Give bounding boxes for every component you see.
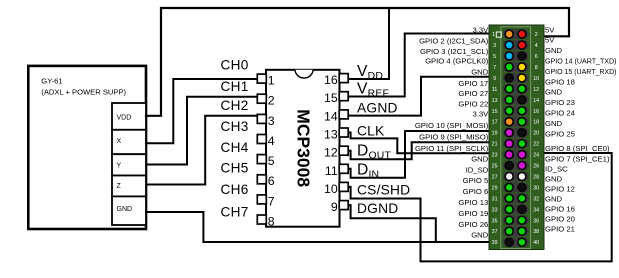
wire Z → CH2 (pin 3) [146, 116, 257, 185]
svg-text:1: 1 [492, 32, 495, 38]
pin 15 (MCP3008 right) [339, 92, 348, 101]
svg-text:36: 36 [533, 218, 539, 224]
svg-text:10: 10 [324, 182, 338, 196]
wire DIN (pin 11) → GPIO 10 SPI_MOSI (header pin 19) [348, 131, 489, 178]
svg-text:CH6: CH6 [221, 182, 249, 197]
svg-text:GPIO 7 (SPI_CE1): GPIO 7 (SPI_CE1) [545, 155, 610, 164]
wire X → CH0 (pin 1) [146, 79, 257, 143]
J1 pins 19-20 [505, 129, 513, 137]
svg-text:CH4: CH4 [221, 140, 249, 155]
svg-text:CH1: CH1 [221, 79, 249, 94]
svg-text:14: 14 [324, 109, 338, 123]
wire CLK (pin 13) → GPIO 11 SPI_SCLK (header pin 23) [348, 133, 489, 154]
svg-text:GPIO 10 (SPI_MOSI): GPIO 10 (SPI_MOSI) [415, 121, 489, 130]
svg-text:GPIO 25: GPIO 25 [545, 129, 575, 138]
J1 pins 5-6 [505, 52, 513, 60]
svg-text:GPIO 6: GPIO 6 [463, 187, 489, 196]
svg-text:3.3V: 3.3V [472, 110, 489, 119]
svg-text:8: 8 [268, 215, 275, 229]
svg-text:11: 11 [325, 164, 338, 178]
svg-text:23: 23 [492, 153, 498, 159]
svg-text:38: 38 [533, 229, 539, 235]
svg-text:GPIO 27: GPIO 27 [458, 89, 488, 98]
J1 pins 11-12 [505, 85, 513, 93]
svg-text:GY-61: GY-61 [41, 76, 62, 85]
svg-text:ID_SC: ID_SC [545, 165, 568, 174]
J1 pins 27-28 [505, 172, 513, 180]
wire CS/SHD (pin 10) → GPIO 8 SPI_CE0 (header pin 24) [348, 153, 612, 261]
svg-text:GPIO 15 (UART_RXD): GPIO 15 (UART_RXD) [545, 67, 617, 76]
wire AGND (pin 14) → GND (header pin 9) [348, 77, 489, 116]
wire GND net: GY-61 GND → bottom rail → header pin 39 (GND) [146, 212, 489, 242]
svg-text:GND: GND [545, 195, 563, 204]
svg-text:11: 11 [492, 87, 498, 93]
svg-text:GND: GND [545, 119, 563, 128]
pin X (GY-61) [112, 130, 146, 154]
svg-text:7: 7 [268, 194, 275, 208]
svg-text:12: 12 [324, 146, 338, 160]
svg-text:GND: GND [117, 206, 133, 213]
svg-text:X: X [117, 138, 122, 145]
J1 pins 39-40 [505, 238, 513, 246]
svg-text:GPIO 18: GPIO 18 [545, 77, 575, 86]
J1 pins 13-14 [505, 96, 513, 104]
wire Y → CH1 (pin 2) [146, 97, 257, 165]
svg-text:13: 13 [492, 98, 498, 104]
wire DOUT (pin 12) → GPIO 9 SPI_MISO (header pin 21) [348, 142, 489, 159]
J1 pins 23-24 [505, 151, 513, 159]
pin 5 (MCP3008 left) [257, 155, 266, 164]
svg-text:(ADXL + POWER SUPP): (ADXL + POWER SUPP) [41, 88, 126, 97]
svg-text:CLK: CLK [357, 123, 385, 138]
svg-text:4: 4 [268, 134, 275, 148]
svg-text:20: 20 [533, 131, 539, 137]
J1 pins 15-16 [505, 107, 513, 115]
svg-text:GPIO 3 (I2C1_SCL): GPIO 3 (I2C1_SCL) [420, 47, 489, 56]
svg-text:9: 9 [331, 200, 338, 214]
svg-text:34: 34 [533, 207, 539, 213]
svg-text:17: 17 [492, 120, 498, 126]
J1 pins 3-4 [505, 41, 513, 49]
svg-text:31: 31 [492, 196, 498, 202]
wire 5V net: GY-61 VDD → top rail → header pin 2 (5V) [146, 8, 569, 116]
svg-text:39: 39 [492, 240, 498, 246]
svg-text:26: 26 [533, 164, 539, 170]
svg-text:16: 16 [324, 73, 338, 87]
svg-text:GPIO 4 (GPCLK0): GPIO 4 (GPCLK0) [425, 57, 489, 66]
svg-text:35: 35 [492, 218, 498, 224]
J1 black pin strip (20 two-pin segments) [503, 29, 529, 39]
svg-text:GPIO 13: GPIO 13 [458, 198, 488, 207]
svg-text:AGND: AGND [357, 100, 398, 115]
pin 6 (MCP3008 left) [257, 175, 266, 184]
svg-text:GPIO 24: GPIO 24 [545, 109, 576, 118]
svg-text:9: 9 [493, 76, 496, 82]
svg-text:15: 15 [324, 91, 338, 105]
svg-text:15: 15 [492, 109, 498, 115]
svg-text:Z: Z [117, 183, 122, 190]
svg-text:19: 19 [492, 131, 498, 137]
svg-text:4: 4 [535, 43, 538, 49]
svg-text:5V: 5V [545, 25, 555, 34]
svg-text:GPIO 12: GPIO 12 [545, 185, 575, 194]
svg-text:18: 18 [533, 120, 539, 126]
svg-text:CH3: CH3 [221, 119, 249, 134]
J1 pin-1 marker square [496, 32, 501, 37]
pin 9 (MCP3008 right) [339, 201, 348, 210]
pin Z (GY-61) [112, 176, 146, 197]
svg-text:GND: GND [545, 175, 563, 184]
svg-text:GND: GND [471, 68, 489, 77]
module GY-61 (ADXL + power supply board) [28, 66, 146, 229]
wire DGND (pin 9) → bottom GND rail [348, 205, 436, 242]
svg-text:25: 25 [492, 164, 498, 170]
svg-text:7: 7 [493, 65, 496, 71]
pin 14 (MCP3008 right) [339, 110, 348, 119]
svg-text:VDD: VDD [117, 115, 132, 122]
svg-text:22: 22 [533, 142, 539, 148]
svg-text:GND: GND [545, 88, 563, 97]
svg-text:8: 8 [535, 65, 538, 71]
svg-text:37: 37 [492, 229, 498, 235]
svg-text:28: 28 [533, 174, 539, 180]
svg-text:DGND: DGND [357, 201, 398, 216]
svg-text:GPIO 26: GPIO 26 [458, 220, 488, 229]
svg-text:GPIO 19: GPIO 19 [458, 209, 488, 218]
pin 1 (MCP3008 left) [257, 74, 266, 83]
svg-text:GPIO 8 (SPI_CE0): GPIO 8 (SPI_CE0) [545, 144, 610, 153]
pin 3 (MCP3008 left) [257, 114, 266, 123]
pin 7 (MCP3008 left) [257, 195, 266, 204]
J1 silkscreen outline [501, 27, 531, 249]
svg-text:CS/SHD: CS/SHD [357, 182, 410, 197]
svg-text:Y: Y [117, 163, 122, 170]
pin 11 (MCP3008 right) [339, 164, 348, 173]
svg-text:CH7: CH7 [221, 205, 249, 220]
svg-text:GND: GND [471, 154, 489, 163]
svg-text:GPIO 11 (SPI_SCLK): GPIO 11 (SPI_SCLK) [415, 144, 489, 153]
svg-text:CH2: CH2 [221, 98, 249, 113]
svg-text:1: 1 [268, 74, 275, 88]
J1 pins 17-18 [505, 118, 513, 126]
svg-text:GPIO 21: GPIO 21 [545, 225, 575, 234]
svg-text:13: 13 [324, 128, 338, 142]
pin 2 (MCP3008 left) [257, 94, 266, 103]
svg-text:3: 3 [268, 114, 275, 128]
svg-text:12: 12 [533, 87, 539, 93]
wire VDD (MCP3008 pin 16) → top 5V rail [348, 8, 389, 79]
svg-text:40: 40 [533, 240, 539, 246]
svg-text:ID_SD: ID_SD [466, 165, 489, 174]
svg-text:3.3V: 3.3V [472, 25, 489, 34]
svg-text:3: 3 [493, 43, 496, 49]
svg-text:GPIO 23: GPIO 23 [545, 98, 575, 107]
pin GND (GY-61) [112, 196, 146, 225]
pin 10 (MCP3008 right) [339, 182, 348, 191]
J1 pins 7-8 [505, 63, 513, 71]
J1 pins 31-32 [505, 194, 513, 202]
J1 pins 21-22 [505, 140, 513, 148]
J1 pins 29-30 [505, 183, 513, 191]
pin 4 (MCP3008 left) [257, 135, 266, 144]
pin Y (GY-61) [112, 154, 146, 175]
svg-text:24: 24 [533, 153, 539, 159]
svg-text:GPIO 2 (I2C1_SDA): GPIO 2 (I2C1_SDA) [419, 37, 489, 46]
pin VDD (GY-61) [112, 103, 146, 130]
connector J1: Raspberry Pi 40-pin GPIO header PCB [489, 25, 544, 250]
J1 pins 25-26 [505, 162, 513, 170]
svg-text:33: 33 [492, 207, 498, 213]
svg-text:GND: GND [471, 231, 489, 240]
IC U1 pin-1 notch [295, 70, 313, 78]
pin 13 (MCP3008 right) [339, 128, 348, 137]
svg-text:5: 5 [268, 154, 275, 168]
svg-text:16: 16 [533, 109, 539, 115]
svg-text:GPIO 22: GPIO 22 [458, 99, 488, 108]
J1 pins 1-2 [505, 30, 513, 38]
svg-text:2: 2 [535, 32, 538, 38]
svg-text:GPIO 17: GPIO 17 [458, 79, 488, 88]
svg-text:CH5: CH5 [221, 161, 249, 176]
svg-text:5V: 5V [545, 36, 555, 45]
J1 pins 33-34 [505, 205, 513, 213]
svg-text:GPIO 14 (UART_TXD): GPIO 14 (UART_TXD) [545, 57, 617, 66]
pin 12 (MCP3008 right) [339, 146, 348, 155]
J1 pins 35-36 [505, 216, 513, 224]
svg-text:30: 30 [533, 185, 539, 191]
pin 16 (MCP3008 right) [339, 74, 348, 83]
pin 8 (MCP3008 left) [257, 215, 266, 224]
svg-text:21: 21 [492, 142, 498, 148]
svg-text:GPIO 20: GPIO 20 [545, 215, 575, 224]
J1 pins 37-38 [505, 227, 513, 235]
J1 pins 9-10 [505, 74, 513, 82]
IC U1 MCP3008 body [266, 70, 340, 227]
svg-text:GPIO 5: GPIO 5 [463, 176, 489, 185]
svg-text:MCP3008: MCP3008 [294, 109, 314, 187]
svg-text:GND: GND [545, 46, 563, 55]
svg-text:32: 32 [533, 196, 539, 202]
svg-text:6: 6 [535, 54, 538, 60]
svg-text:2: 2 [268, 94, 275, 108]
svg-text:29: 29 [492, 185, 498, 191]
svg-text:27: 27 [492, 174, 498, 180]
svg-text:GPIO 16: GPIO 16 [545, 205, 575, 214]
svg-text:5: 5 [493, 54, 496, 60]
wire VREF (pin 15) → 3.3V (header pin 1) [348, 34, 489, 97]
svg-text:6: 6 [268, 174, 275, 188]
svg-text:10: 10 [533, 76, 539, 82]
svg-text:14: 14 [533, 98, 539, 104]
svg-text:GPIO 9 (SPI_MISO): GPIO 9 (SPI_MISO) [419, 132, 489, 141]
svg-text:CH0: CH0 [221, 58, 249, 73]
